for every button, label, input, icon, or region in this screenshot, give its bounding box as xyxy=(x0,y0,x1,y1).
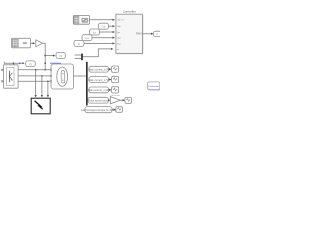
wire C to controller port1 xyxy=(90,19,115,21)
svg-text:rad/s-rpm: rad/s-rpm xyxy=(111,94,121,97)
scope block xyxy=(31,98,50,114)
svg-text:Vdc ref: Vdc ref xyxy=(117,19,124,22)
controller output wire xyxy=(143,33,153,35)
blue junction dot xyxy=(19,62,21,64)
blue measurement wire xyxy=(50,63,60,67)
svg-text:Main current_s (V): Main current_s (V) xyxy=(88,79,109,82)
wire to goto tag T1 xyxy=(45,55,55,57)
gain rad2rpm xyxy=(110,94,120,104)
wire gain to node xyxy=(43,43,46,70)
battery block B1 xyxy=(51,64,74,89)
converter left port stubs xyxy=(2,69,4,71)
battery port squares xyxy=(50,69,51,70)
svg-text:Vdc: Vdc xyxy=(117,26,121,28)
boost converter U1 xyxy=(4,65,19,88)
wire A to gain xyxy=(31,42,35,44)
wire T4 to port4 xyxy=(92,37,114,39)
battery output wire to bus xyxy=(74,75,86,77)
svg-text:Main current_s (A): Main current_s (A) xyxy=(88,69,109,72)
signal builder block C xyxy=(73,16,89,25)
svg-text:m: m xyxy=(117,49,119,51)
rail junction dots xyxy=(35,69,37,71)
svg-text:PWM: PWM xyxy=(136,34,142,36)
gain G1 xyxy=(36,40,43,47)
bus tag row5 xyxy=(81,107,116,113)
wire row3 xyxy=(109,89,111,91)
scope row2 xyxy=(112,76,119,82)
wire T5 to port5 xyxy=(84,42,114,44)
svg-text:Electromagnet torque Te (N*m): Electromagnet torque Te (N*m) xyxy=(81,109,116,112)
bus tag row2 xyxy=(88,77,109,83)
controller subsystem xyxy=(116,10,144,55)
mux output wire to controller port6 xyxy=(83,49,113,57)
svg-text:Main current_s (W): Main current_s (W) xyxy=(88,89,109,92)
from tag T4 xyxy=(82,35,92,41)
wire row2 xyxy=(109,79,111,81)
from tag T5 xyxy=(74,40,84,46)
bus tag row4 xyxy=(88,97,109,103)
scope row4 xyxy=(125,97,132,103)
wire T2 to port2 xyxy=(109,25,115,27)
dc rail top xyxy=(18,69,51,71)
bus tag row3 xyxy=(88,87,109,93)
scope row5 xyxy=(116,107,123,113)
PV source block A xyxy=(12,38,31,48)
svg-text:Vb: Vb xyxy=(59,54,63,58)
svg-text:Vp: Vp xyxy=(29,62,33,66)
wire to goto tag T0 xyxy=(4,62,24,64)
stub to converter top xyxy=(12,63,14,65)
measurement bus bar xyxy=(86,62,88,106)
node dot1 xyxy=(44,55,46,57)
svg-text:Vpv: Vpv xyxy=(85,36,90,40)
wire row4 xyxy=(108,99,109,101)
wire row5 xyxy=(112,109,115,111)
svg-text:Ibat: Ibat xyxy=(117,42,121,45)
dc rail mid xyxy=(18,75,51,77)
scope row3 xyxy=(112,87,119,93)
svg-text:Continuous: Continuous xyxy=(148,85,160,88)
wire T3 to port3 xyxy=(100,31,115,33)
node dot4 xyxy=(13,62,15,64)
svg-text:Rotor speed (wm): Rotor speed (wm) xyxy=(88,100,108,103)
mux input stubs xyxy=(75,54,82,56)
goto tag T1 xyxy=(56,52,65,58)
mux M1 xyxy=(81,54,83,61)
node dot3 xyxy=(44,69,46,71)
wire row4b xyxy=(120,99,124,101)
goto tag T0 xyxy=(26,61,36,67)
scope drop wires xyxy=(35,70,37,97)
svg-text:P: P xyxy=(156,32,158,36)
svg-text:Controller: Controller xyxy=(123,10,136,14)
powergui block xyxy=(148,82,161,91)
dc rail bottom xyxy=(18,80,51,82)
bus tag row1 xyxy=(88,66,109,72)
from tag T2 xyxy=(99,23,109,29)
goto tag PWM xyxy=(154,31,161,36)
from tag T3 xyxy=(90,29,100,35)
svg-text:Vdc: Vdc xyxy=(101,25,106,29)
wire row1 xyxy=(109,68,111,70)
scope row1 xyxy=(112,66,119,72)
node dot2 xyxy=(44,62,46,64)
